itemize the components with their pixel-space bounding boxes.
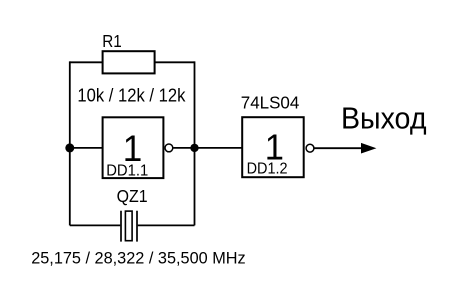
svg-text:QZ1: QZ1 xyxy=(117,186,148,206)
svg-text:DD1.1: DD1.1 xyxy=(106,162,148,179)
svg-text:10k / 12k / 12k: 10k / 12k / 12k xyxy=(77,86,186,106)
svg-text:R1: R1 xyxy=(102,31,122,51)
svg-text:DD1.2: DD1.2 xyxy=(247,161,288,178)
svg-text:25,175 / 28,322 / 35,500 MHz: 25,175 / 28,322 / 35,500 MHz xyxy=(31,249,246,267)
svg-text:Выход: Выход xyxy=(341,103,427,136)
svg-text:74LS04: 74LS04 xyxy=(241,93,300,113)
